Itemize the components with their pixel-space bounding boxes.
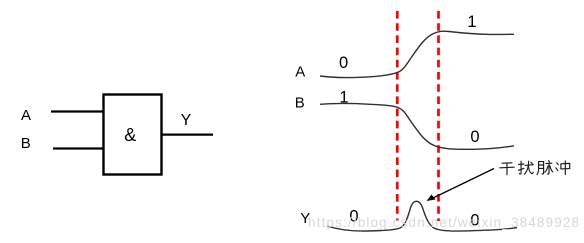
svg-text:1: 1	[467, 13, 476, 31]
annotation text 干扰脉冲 (glitch pulse), drawn as strokes	[500, 161, 570, 175]
waveform Y trace with glitch pulse	[327, 201, 517, 231]
svg-text:&: &	[124, 125, 136, 145]
svg-text:B: B	[295, 95, 305, 112]
char 冲	[556, 161, 570, 175]
svg-text:https://blog.csdn.net/weixin_3: https://blog.csdn.net/weixin_38489928	[308, 215, 580, 230]
waveform A trace (0 to 1 transition)	[320, 31, 514, 77]
char 扰	[519, 161, 534, 174]
svg-text:A: A	[21, 107, 31, 124]
char 干	[500, 163, 514, 175]
svg-text:Y: Y	[181, 112, 192, 129]
svg-text:0: 0	[339, 54, 348, 72]
glitch annotation arrowhead	[427, 195, 436, 202]
wire B input	[53, 147, 104, 149]
wire Y output	[162, 134, 214, 136]
waveform B trace (1 to 0 transition)	[320, 103, 514, 149]
char 脉	[537, 161, 553, 175]
red dashed timing line t1	[396, 11, 399, 221]
svg-text:1: 1	[339, 88, 348, 106]
svg-text:A: A	[295, 64, 305, 81]
red dashed timing line t2	[437, 11, 440, 221]
svg-text:B: B	[21, 135, 31, 152]
wire A input	[51, 110, 104, 112]
glitch annotation arrow	[431, 169, 494, 200]
svg-text:0: 0	[470, 128, 479, 146]
AND gate U1 body	[104, 95, 162, 175]
